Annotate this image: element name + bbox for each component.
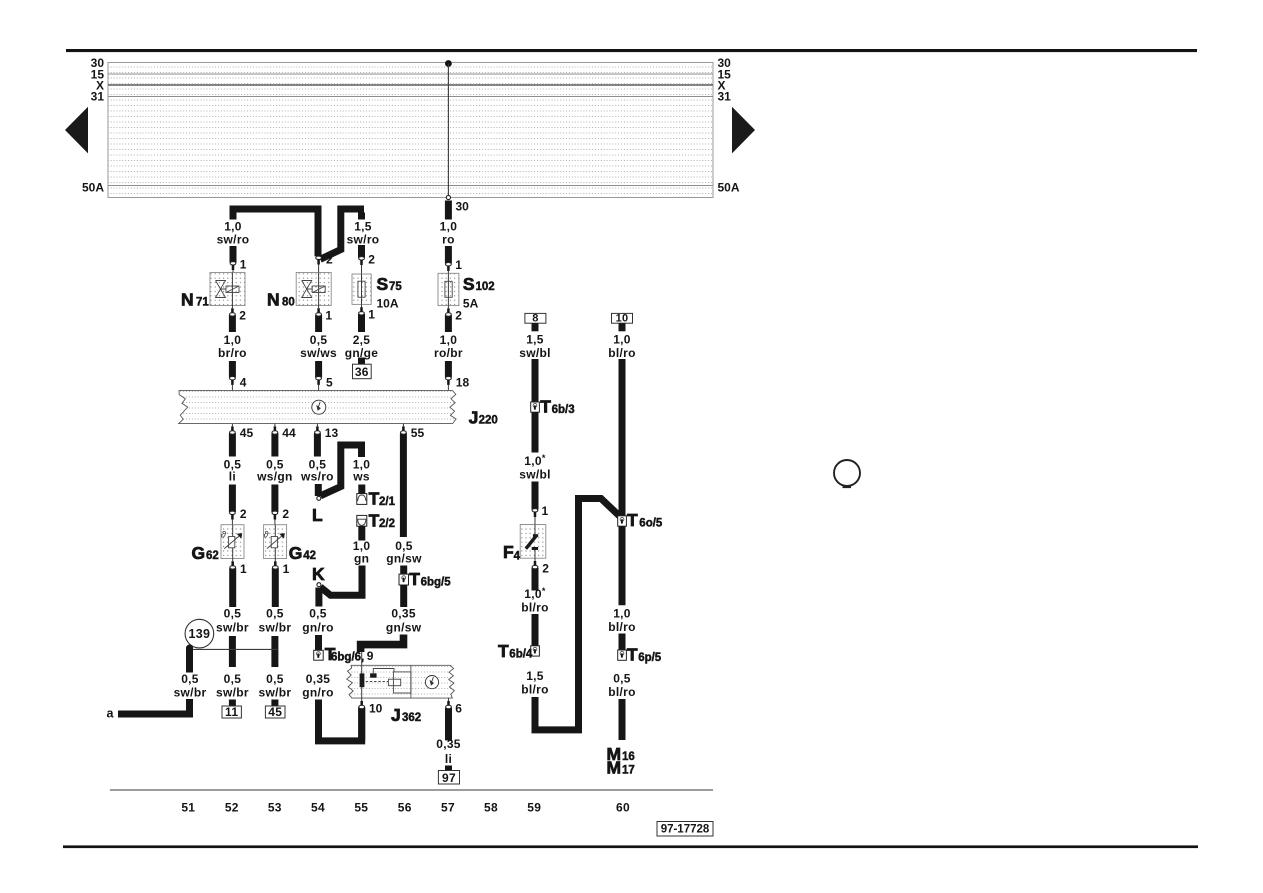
splice wire horizontal [189,648,277,650]
wire stub to ground 36 [358,358,365,365]
wire label 0,5 sw/br col51 [174,672,207,699]
svg-text:0,35: 0,35 [391,606,416,620]
svg-text:2,5: 2,5 [353,333,371,347]
svg-text:9: 9 [367,649,374,663]
wire label 1,0 sw/ro [217,220,250,247]
svg-text:0,35: 0,35 [436,737,461,751]
svg-text:0,35: 0,35 [306,672,331,686]
pin 45 J220 [230,424,254,457]
fuse S75 [352,274,371,304]
pin 2 S102 [446,306,463,332]
svg-text:2: 2 [282,507,289,521]
wire label 0,35 gn/ro [302,672,334,699]
svg-text:bl/ro: bl/ro [521,682,549,696]
label S75 10A [377,274,403,311]
svg-text:ϑ: ϑ [221,530,227,541]
svg-text:6bg/5: 6bg/5 [421,577,452,589]
svg-text:gn/ro: gn/ro [302,621,334,635]
label T6bg/5 [409,569,451,589]
svg-text:58: 58 [484,801,498,815]
svg-text:2/2: 2/2 [379,518,395,530]
svg-text:T: T [540,397,551,417]
wire to T6p/5 [619,634,626,651]
label S102 5A [463,274,495,311]
wire below K [315,588,322,607]
legend circle [834,460,860,487]
svg-text:G: G [289,543,303,563]
svg-text:0,5: 0,5 [266,606,284,620]
wire bus 1,5 sw/ro hook [320,209,364,259]
svg-text:2: 2 [326,253,333,267]
svg-text:71: 71 [196,297,209,309]
wire label 0,5 sw/br lower52 [216,672,249,699]
svg-text:52: 52 [225,801,239,815]
svg-text:2: 2 [240,507,247,521]
wire label 0,5 gn/sw [386,539,422,565]
wire gn/ro to pin10 J362 [319,700,362,741]
svg-text:L: L [312,505,323,525]
wire to T6b/4 [532,614,539,646]
svg-text:51: 51 [181,801,195,815]
svg-text:102: 102 [476,281,495,293]
connector K [317,583,321,587]
pin 1 N71 [230,257,247,272]
wire stub to plate 97 [445,766,452,771]
wire G62 upper [229,485,236,513]
wire below T6bg/5 [400,585,407,607]
svg-text:ws/gn: ws/gn [256,470,293,484]
svg-text:1,5: 1,5 [526,333,544,347]
pin 2 G62 [230,507,247,525]
wire G42 to splice [271,636,278,667]
label T6b/3 [540,397,574,417]
svg-text:53: 53 [268,801,282,815]
wire label 1,0 gn [353,539,371,565]
svg-text:54: 54 [311,801,325,815]
wire G62 to splice [229,636,236,667]
J220 internal symbol [312,400,326,414]
svg-text:bl/ro: bl/ro [521,600,549,614]
svg-text:10: 10 [616,313,629,325]
svg-text:6b/4: 6b/4 [509,649,533,661]
J362 motor symbol [425,676,438,689]
wire label 1,5 sw/bl [519,333,551,360]
svg-text:1: 1 [240,562,247,576]
svg-text:5A: 5A [463,297,479,311]
svg-text:1,5: 1,5 [354,220,372,234]
power supply bus band [108,63,713,198]
wire stub terminal 30 [445,201,452,220]
pin 6 J362 [446,698,463,740]
svg-text:0,5: 0,5 [224,606,242,620]
label T6o/5 [627,510,663,530]
label J220 [469,408,498,428]
pin 1 S102 [446,246,463,273]
wire gn hook to K [320,566,362,596]
wire stub to T6bg/5 [400,566,407,575]
svg-text:gn: gn [354,551,369,565]
svg-text:N: N [181,290,194,310]
wire to T6b/3 [532,359,539,402]
wire label 0,5 gn/ro [302,606,334,634]
svg-text:li: li [445,752,452,766]
svg-text:8: 8 [532,313,538,325]
wire stub below 10 [619,323,626,331]
svg-text:97-17728: 97-17728 [661,824,710,836]
svg-text:45: 45 [240,426,254,440]
connector T6bg/6 [314,650,324,660]
svg-text:42: 42 [303,550,316,562]
svg-text:0,5: 0,5 [310,333,328,347]
svg-text:1: 1 [542,504,549,518]
svg-text:sw/ro: sw/ro [217,233,250,247]
svg-text:30: 30 [456,200,470,214]
wire stub to J220 pin4 [229,361,236,378]
wire label 0,5 sw/ws [300,333,337,360]
svg-text:2: 2 [542,562,549,576]
plate connector 8 [525,313,546,325]
svg-text:55: 55 [354,801,368,815]
ground reference 11 [222,705,241,719]
svg-text:2: 2 [455,309,462,323]
label F4 [503,542,521,563]
svg-text:0,5: 0,5 [181,672,199,686]
svg-text:1: 1 [240,257,247,271]
ground reference 45 [265,705,285,719]
wire to M16 M17 [619,699,626,740]
sensor G62 [221,525,244,559]
label T6p/5 [627,644,662,664]
wire label 1,0* bl/ro [521,586,549,614]
svg-text:1,0: 1,0 [613,333,631,347]
svg-text:sw/br: sw/br [174,685,207,699]
svg-text:4: 4 [514,551,521,563]
connector T6o/5 [618,516,627,526]
svg-text:50A: 50A [718,181,740,195]
connector T2/1 [357,494,367,505]
splice 139 [185,619,214,648]
pin 2 S75 [359,245,376,274]
connector T6b/4 [531,646,540,656]
svg-text:10A: 10A [377,297,399,311]
svg-text:97: 97 [442,771,456,785]
svg-text:K: K [312,564,325,584]
valve N71 [210,273,245,306]
svg-text:31: 31 [718,90,732,104]
svg-text:bl/ro: bl/ro [608,620,636,634]
connector L [317,496,321,500]
wire label 0,35 li [436,737,461,766]
wire label 1,5 bl/ro [521,669,549,696]
wire stub to J220 pin5 [315,361,322,378]
pin 2 N80 [316,253,333,273]
svg-text:6p/5: 6p/5 [638,652,662,664]
connector T6b/3 [531,402,540,412]
connector T6bg/5 [399,574,409,585]
svg-text:6: 6 [455,702,462,716]
wire label 1,0 ro/br [434,333,463,360]
J362 relay symbol [360,665,411,698]
svg-text:G: G [192,543,206,563]
label N71 [181,290,209,310]
bottom border rule [63,845,1198,848]
svg-text:59: 59 [527,801,541,815]
svg-text:T: T [498,641,509,661]
label M17 [607,758,635,778]
svg-text:1,0: 1,0 [440,333,458,347]
wire stub to J220 pin18 [445,361,452,378]
svg-text:sw/br: sw/br [216,621,249,635]
top border rule [66,49,1197,52]
svg-text:br/ro: br/ro [218,346,247,360]
connector T6p/5 [618,650,627,660]
svg-text:ro/br: ro/br [434,346,463,360]
terminal 30 connector [446,195,450,199]
svg-text:sw/bl: sw/bl [519,467,551,481]
wire to connector L [315,484,322,496]
wire bus sw/ro horizontal [230,206,322,213]
ground reference 36 [353,364,372,379]
svg-text:1: 1 [455,258,462,272]
svg-text:60: 60 [616,801,630,815]
wire 30 feed vertical [447,64,449,198]
svg-text:6bg/6,: 6bg/6, [331,651,364,663]
svg-text:2: 2 [368,253,375,267]
control unit J220 band [179,391,456,424]
wire label 0,5 sw/br G62 [216,606,249,634]
wire label 0,5 bl/ro [608,672,636,699]
svg-text:220: 220 [479,415,498,427]
wire G42 upper [271,485,278,513]
label M16 [607,744,635,764]
svg-text:2: 2 [239,308,246,322]
svg-text:1: 1 [325,308,332,322]
connector T2/2 [357,515,367,526]
pin 1 F4 [532,504,548,525]
svg-text:gn/ro: gn/ro [302,685,334,699]
label J362 [391,705,421,725]
wire label 0,35 gn/sw [386,606,422,634]
svg-text:62: 62 [206,550,219,562]
wire label 1,0 bl/ro mid60 [608,607,636,635]
pin 18 J220 [446,376,470,391]
svg-text:sw/br: sw/br [258,621,291,635]
svg-text:T: T [627,644,638,664]
svg-text:ro: ro [442,233,455,247]
svg-text:ws: ws [352,470,370,484]
svg-text:sw/ws: sw/ws [300,346,337,360]
label G62 [192,543,219,563]
wire gn/sw hook to pin9 [361,635,404,653]
label T6b/4 [498,641,533,661]
valve N80 [296,273,331,306]
svg-text:gn/sw: gn/sw [386,621,422,635]
svg-text:S: S [377,274,389,294]
wire stub N71 pin1 [230,246,237,263]
svg-text:18: 18 [456,376,470,390]
svg-text:N: N [267,290,280,310]
pin 1 S75 [359,304,376,332]
plate connector 10 [612,313,633,325]
wire label 0,5 ws/gn [256,458,293,484]
svg-text:5: 5 [326,376,333,390]
label T2/2 [369,511,395,531]
svg-text:0,5: 0,5 [266,672,284,686]
svg-text:1,5: 1,5 [526,669,544,683]
wire label 0,5 li [224,458,242,484]
svg-text:50A: 50A [82,181,104,195]
right arrow [732,107,755,154]
svg-text:139: 139 [189,627,211,641]
wire T6b/3 to F4 [532,412,539,452]
pin 5 J220 [316,376,333,391]
svg-text:13: 13 [325,426,339,440]
svg-text:S: S [463,274,475,294]
svg-text:1: 1 [368,307,375,321]
label T2/1 [369,489,396,509]
wire to T6bg/6 [315,635,322,650]
svg-text:gn/sw: gn/sw [386,551,422,565]
svg-text:10: 10 [369,702,383,716]
svg-text:4: 4 [240,376,247,390]
pin 44 J220 [272,424,296,457]
svg-text:T: T [369,489,380,509]
wire stub to plate 45 [271,700,278,707]
pin 9 J362 lead [361,652,363,665]
svg-text:J: J [469,408,479,428]
svg-text:sw/bl: sw/bl [519,346,551,360]
svg-text:57: 57 [441,801,455,815]
svg-text:sw/ro: sw/ro [347,233,380,247]
wire 10 to T6o/5 [619,359,626,516]
svg-text:1,0: 1,0 [440,220,458,234]
svg-text:1,0: 1,0 [224,333,242,347]
svg-text:0,5: 0,5 [613,672,631,686]
svg-text:56: 56 [398,801,412,815]
wire label 1,0 br/ro [218,333,247,360]
wire label 1,0 ro [440,220,458,247]
pin 4 J220 [230,376,247,391]
svg-text:J: J [391,705,401,725]
svg-text:li: li [229,470,236,484]
wire label 1,0* sw/bl [519,453,551,481]
svg-text:a: a [107,707,115,721]
svg-text:362: 362 [402,712,421,724]
svg-text:T: T [369,511,380,531]
control unit J362 band [347,665,455,698]
svg-text:6o/5: 6o/5 [639,518,663,530]
wire label 1,5 sw/ro [347,220,380,247]
svg-text:1,0: 1,0 [613,607,631,621]
svg-text:0,5: 0,5 [309,606,327,620]
pin 2 G42 [272,507,289,525]
wire stub below T2/2 [358,526,365,540]
wire F4 riser to T6o/5 [535,499,620,730]
svg-text:44: 44 [282,426,296,440]
svg-text:sw/br: sw/br [258,685,291,699]
svg-text:80: 80 [282,297,295,309]
wire label 0,5 sw/br G42 [258,606,291,634]
sensor G42 [263,525,286,559]
node 30 junction dot [445,60,452,67]
svg-text:0,5: 0,5 [224,672,242,686]
wire to terminal a [118,699,190,714]
wire label 1,0 bl/ro top60 [608,333,636,360]
svg-text:31: 31 [91,90,105,104]
svg-text:1: 1 [283,562,290,576]
wire stub to T2/1 [358,485,365,494]
diagram number 97-17728 [657,822,713,837]
wire label 1,0 ws [352,458,370,484]
label G42 [289,543,316,563]
label T6bg/6 [325,644,365,664]
svg-text:1,0: 1,0 [224,220,242,234]
svg-text:T: T [409,569,420,589]
svg-text:36: 36 [355,365,369,379]
wire label 0,5 ws/ro [300,458,334,484]
svg-text:ws/ro: ws/ro [300,470,334,484]
svg-text:75: 75 [389,281,402,293]
pin 55 J220 [401,424,425,537]
wire label 0,5 sw/br lower53 [258,672,291,699]
wire stub below 8 [532,323,539,331]
pin 2 F4 [532,558,549,590]
pin 2 N71 [230,306,247,333]
svg-text:55: 55 [411,426,425,440]
svg-text:16: 16 [622,751,635,763]
wire 1,0 ws inverted U [321,445,362,496]
wire label 2,5 gn/ge [345,333,379,360]
wire T6o/5 to label [619,526,626,605]
svg-text:F: F [503,542,514,562]
svg-text:17: 17 [622,765,635,777]
svg-text:sw/br: sw/br [216,685,249,699]
bottom grid rule [110,789,713,791]
svg-text:M: M [607,758,622,778]
svg-text:45: 45 [268,705,282,719]
wire a-column upper [186,645,193,652]
svg-text:11: 11 [225,705,238,719]
left arrow [65,107,88,154]
fuse S102 [438,273,459,305]
svg-text:ϑ: ϑ [263,530,269,541]
svg-text:6b/3: 6b/3 [552,404,575,416]
wire stub N71 feed [230,209,237,220]
wire drop to N80 pin 2 [315,210,322,256]
pin 1 G62 [230,559,247,608]
label N80 [267,290,295,310]
pin 13 J220 [315,424,339,457]
J362 internal divider [410,665,412,698]
svg-text:bl/ro: bl/ro [608,685,636,699]
pin 10 J362 [359,698,383,741]
svg-text:bl/ro: bl/ro [608,346,636,360]
svg-text:T: T [627,510,638,530]
switch F4 [520,525,546,559]
wire stub to plate 11 [229,700,236,707]
pin 1 G42 [272,559,289,608]
pin 1 N80 [316,306,333,333]
ground reference 97 [438,771,459,785]
svg-text:2/1: 2/1 [379,496,396,508]
